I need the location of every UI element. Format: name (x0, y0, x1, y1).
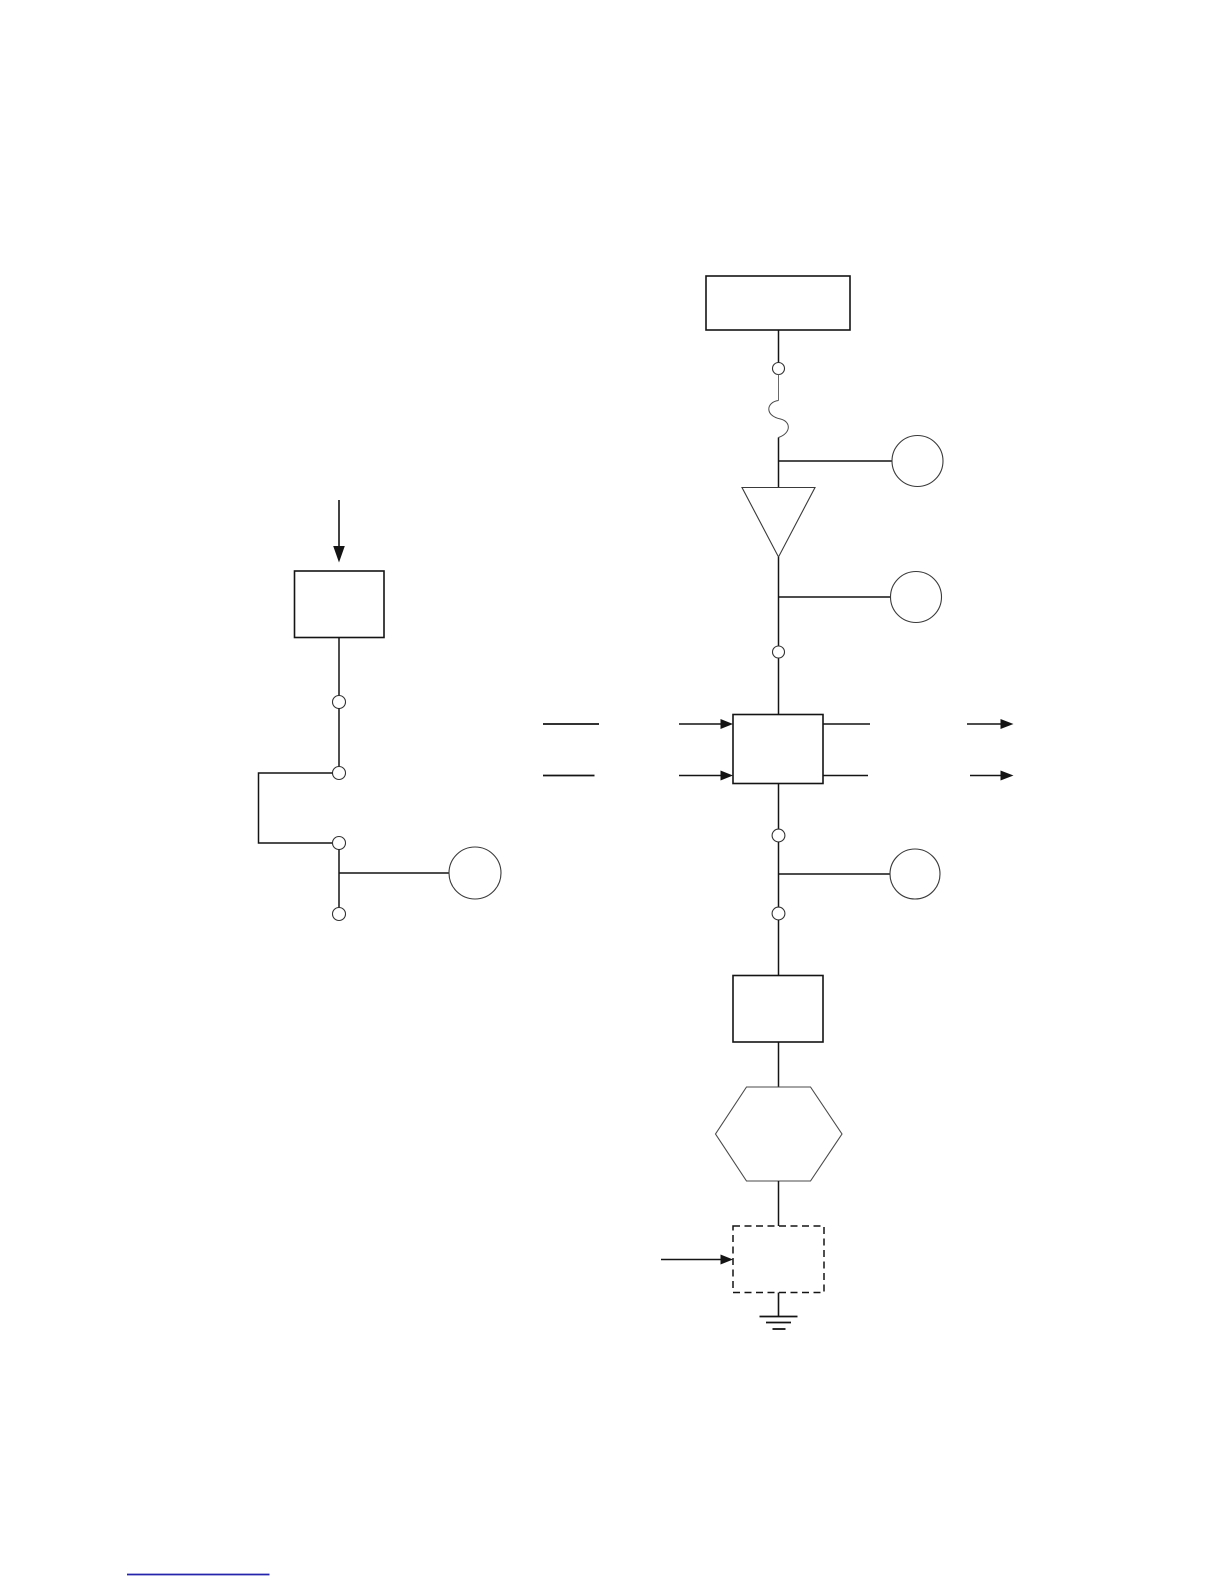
input arrow A1 (679, 719, 733, 729)
wire N1 to node N2 (338, 709, 340, 767)
triangle funnel T1 (742, 488, 815, 558)
node N8 (772, 907, 785, 920)
wire B4 to hexagon (778, 1042, 780, 1087)
far right arrow A4 (970, 771, 1014, 781)
node N5 (773, 363, 785, 375)
wire tap to instrument I4 (779, 873, 891, 875)
instrument circle I3 (891, 572, 942, 623)
input arrow A5 into dashed box (661, 1255, 733, 1265)
node N2 (333, 767, 346, 780)
node N7 (772, 829, 785, 842)
wire tap to instrument I1 (339, 872, 449, 874)
output line O1 (823, 723, 870, 725)
flow arrow into left box (333, 500, 345, 563)
node N4 (333, 908, 346, 921)
dash mark row 2 (543, 775, 595, 777)
output line O2 (823, 775, 868, 777)
wire N7 to node N8 (778, 842, 780, 907)
wire dashed box to ground (778, 1293, 780, 1317)
dash mark row 1 (543, 723, 599, 725)
wire B1 to node N1 (338, 638, 340, 696)
node N1 (333, 696, 346, 709)
footer blue underline (127, 1574, 270, 1576)
node N6 (773, 646, 785, 658)
input arrow A2 (679, 771, 733, 781)
box B2 (top right process box) (706, 276, 850, 330)
wire N5 to squiggle (778, 375, 780, 401)
instrument circle I2 (892, 436, 943, 487)
box B1 (left process box) (295, 571, 385, 638)
wire N8 to box B4 (778, 920, 780, 976)
wire tap to instrument I2 (779, 460, 893, 462)
flexible squiggle FS1 (769, 401, 789, 438)
wire triangle to box B3 (778, 557, 780, 715)
node N3 (333, 837, 346, 850)
ground (760, 1317, 798, 1330)
wire B3 to node N7 (778, 784, 780, 830)
dashed box B5 (733, 1226, 824, 1293)
hexagon H1 (716, 1087, 843, 1181)
box B3 (center process box) (733, 715, 823, 784)
instrument circle I4 (890, 849, 940, 899)
box B4 (lower process box) (733, 976, 823, 1043)
wire hexagon to dashed box (778, 1181, 780, 1226)
instrument circle I1 (449, 847, 501, 899)
wire B2 to node N5 (778, 330, 780, 363)
far right arrow A3 (967, 719, 1014, 729)
wire tap to instrument I3 (779, 596, 891, 598)
wire squiggle to triangle (778, 438, 780, 488)
wire N3 to node N4 (338, 850, 340, 908)
wire bypass loop N2 to N3 (259, 773, 333, 843)
